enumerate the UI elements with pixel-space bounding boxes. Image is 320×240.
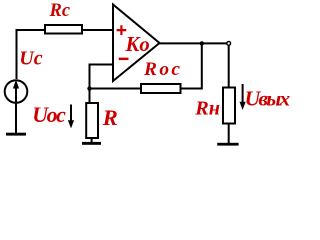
wire: Roc to output branch	[181, 44, 202, 89]
op-amp U1 (Ko)	[113, 5, 160, 82]
source Uc circle	[5, 80, 28, 103]
svg-text:Rc: Rc	[49, 1, 71, 21]
wire: Rc to op-amp + input	[83, 29, 112, 31]
wire: - input down to R	[90, 65, 113, 104]
node: feedback junction	[87, 86, 91, 90]
svg-text:Uoc: Uoc	[32, 103, 66, 127]
node: output junction	[200, 41, 204, 45]
wire: terminal down to Rn	[228, 45, 230, 87]
wire: source top to Rc	[17, 30, 46, 79]
svg-text:Roc: Roc	[143, 59, 180, 80]
op-amp + marking	[117, 25, 127, 35]
resistor Roc	[141, 84, 181, 93]
wire: Rn to ground	[228, 124, 230, 144]
wire: R to ground	[91, 138, 93, 143]
source arrow up	[13, 80, 19, 103]
svg-text:Ko: Ko	[125, 33, 150, 56]
svg-text:Uc: Uc	[19, 48, 42, 70]
ground under R	[82, 142, 101, 145]
terminal: output open circle	[227, 42, 231, 46]
op-amp - marking	[119, 58, 129, 61]
arrow Uvyh down	[240, 84, 246, 110]
ground under source	[6, 133, 26, 136]
resistor Rc	[45, 25, 82, 34]
svg-text:Rн: Rн	[194, 97, 220, 119]
resistor R	[86, 103, 98, 138]
wire: op-amp output	[160, 42, 227, 44]
svg-text:R: R	[102, 105, 118, 130]
ground under Rn	[217, 143, 238, 146]
arrow Uoc down	[68, 105, 74, 129]
wire: feedback rail to Roc	[90, 88, 143, 90]
wire: source to ground	[15, 103, 17, 133]
resistor Rn	[223, 88, 235, 124]
svg-text:Uвых: Uвых	[245, 87, 291, 111]
